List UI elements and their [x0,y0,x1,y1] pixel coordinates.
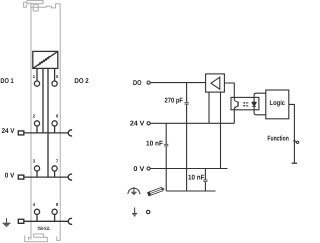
opto light arrows [243,102,245,107]
wire driver out to opto [224,83,234,100]
terminal circle pin 2 [34,121,39,126]
rail 0V [24,176,69,178]
wire driver leg 24V [208,92,210,123]
wire 10nF branch 1 [165,123,167,191]
wire internal 24V [42,68,44,132]
svg-text:5: 5 [56,74,59,79]
wire opto-logic bracket [254,93,266,115]
stem pin 3 [36,171,38,177]
terminal DO [147,81,150,84]
wire opto emitter to 24V [233,108,235,123]
svg-text:DO: DO [133,80,142,87]
svg-text:7: 7 [56,159,59,164]
wire DO to driver [150,82,205,84]
driver triangle [211,77,220,89]
wire 270pF branch [186,83,188,191]
spade contact 0V [18,175,24,179]
svg-text:270 pF: 270 pF [165,97,184,104]
latch top bar [27,1,43,4]
stem pin 2 [36,126,38,133]
svg-text:0 V: 0 V [5,172,15,179]
legend earth symbol [132,208,137,217]
svg-text:10 nF: 10 nF [188,174,205,181]
optocoupler U2 box [231,97,259,109]
jumper contact arc 0V [68,174,72,180]
terminal circle pin 5 [52,81,57,86]
svg-text:3: 3 [33,159,36,164]
svg-text:DO 1: DO 1 [0,78,13,85]
jumper contact arc earth [68,218,72,224]
wire pin5 stem [54,68,56,81]
svg-text:DO 2: DO 2 [74,78,88,85]
electronics diagonal [33,51,58,68]
terminal circle pin 7 [52,166,57,171]
terminal 0V [147,167,150,170]
svg-text:0 V: 0 V [133,166,144,173]
svg-text:Function: Function [267,135,288,143]
rail earth [24,220,69,222]
terminal circle pin 1 [34,81,39,86]
wire 10nF branch 2 [204,169,206,192]
housing right edge [59,4,61,237]
jumper contact arc 24V [68,130,72,136]
stem pin 7 [54,171,56,177]
svg-text:24 V: 24 V [130,121,145,128]
driver U1 box [206,74,225,92]
module outline 750-511 (light gray housing) [24,1,61,242]
logic box [266,90,289,119]
phototransistor Q1 [234,100,238,108]
terminal circle pin 6 [52,121,57,126]
opto light dashes [246,103,249,106]
housing bottom left foot [25,234,48,242]
terminal circle pin 8 [52,209,57,214]
electronics hatch [39,56,50,66]
legend terminal circle [147,210,150,213]
stem pin 4 [36,214,38,221]
earth symbol left [3,218,11,226]
electronics block E1 [33,51,58,68]
node 0V wire [150,168,227,170]
housing top step [31,4,60,8]
latch inner slot [33,4,38,11]
svg-text:4: 4 [33,202,36,207]
FE functional earth symbol [128,187,140,195]
svg-text:750-511: 750-511 [37,226,50,232]
power jumper blade symbol [148,187,165,196]
stem pin 8 [54,214,56,221]
svg-text:24 V: 24 V [2,128,15,135]
housing bottom right foot [57,236,60,240]
svg-text:2: 2 [33,114,36,119]
terminal circle pin 3 [34,166,39,171]
wire driver leg 0V [220,92,222,168]
termination bar [292,162,297,164]
housing left edge [30,2,32,239]
rail 24V [24,132,69,134]
spade contact earth [18,219,24,223]
wire pin1 stem [36,68,38,81]
LED D1 [252,102,256,107]
terminal circle pin 4 [34,209,39,214]
stem pin 6 [54,126,56,133]
function tap arrow [293,140,299,144]
svg-text:1: 1 [33,74,36,79]
function terminal circle [296,141,298,143]
node 24V wire [150,122,234,124]
transistor arrow [234,107,236,109]
wire internal 0V [47,68,49,177]
latch claw [24,2,27,7]
earth rail bottom [166,190,215,192]
svg-text:8: 8 [56,202,59,207]
spade contact 24V [18,131,24,135]
capacitor C2 10nF plates [164,144,168,146]
wire logic out [289,104,295,163]
capacitor C1 270pF plates [185,103,189,105]
housing bottom left foot inner [29,237,31,240]
terminal 24V [147,122,150,125]
svg-text:Logic: Logic [270,99,286,107]
svg-text:10 nF: 10 nF [146,141,164,148]
capacitor C3 10nF plates [203,180,207,182]
svg-text:6: 6 [56,114,59,119]
